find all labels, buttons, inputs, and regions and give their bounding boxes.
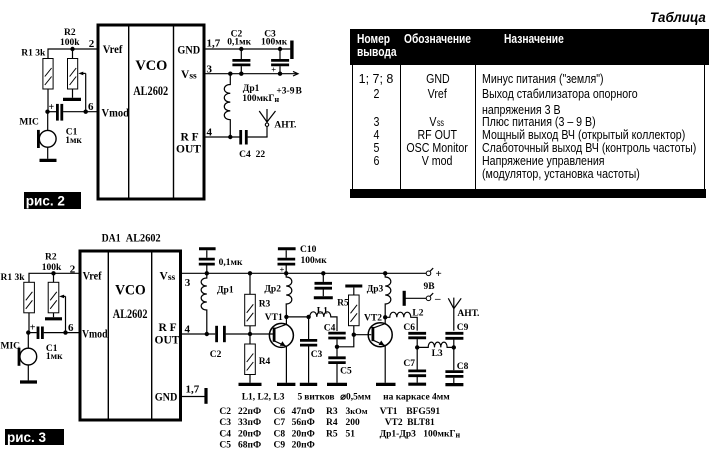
parts list line 5 — [219, 441, 314, 451]
node C3 bottom — [278, 72, 282, 76]
node C2 right / R3 R4 base junction fig3 — [248, 332, 252, 336]
potentiometer R2 100k fig3 — [42, 253, 62, 313]
wire MIC bottom lead fig3 — [27, 365, 29, 380]
node VT1 collector junction fig3 — [284, 315, 288, 319]
wire antenna to C9 fig3 — [453, 309, 455, 331]
node Dr3 top fig3 — [383, 271, 387, 275]
ground C5 fig3 — [327, 383, 347, 386]
wire mic node to C1 and pin 6 — [48, 111, 98, 113]
node decoupling cap top fig3 — [321, 271, 325, 275]
antenna ANT fig3 — [448, 298, 479, 319]
antenna ANT fig2 — [259, 109, 296, 131]
capacitor 0,1mk decoupling fig3 — [199, 249, 243, 273]
figure label ris.2 — [24, 192, 81, 209]
pin 2 Vref label fig3 — [70, 263, 102, 282]
node VT2 collector junction fig3 — [383, 315, 387, 319]
wire R2 top lead fig3 — [53, 273, 55, 282]
wire collector node to L1 fig3 — [286, 316, 308, 318]
wire GND pin 1,7 fig3 — [182, 396, 205, 398]
capacitor C4 22 — [239, 130, 268, 160]
table title — [647, 11, 706, 24]
ground C8 fig3 — [445, 383, 463, 386]
table header bar — [350, 29, 709, 65]
node C3 top — [278, 47, 282, 51]
battery plus terminal 9V — [424, 268, 442, 292]
inductor Dr2 fig3 — [264, 273, 291, 317]
wire Vref to R1/R2 top — [48, 49, 97, 59]
pin 4 RF OUT label fig3 — [155, 322, 191, 347]
wire Vss rail pin 3 to supply — [206, 71, 303, 96]
node 0,1mk / Dr1 top fig3 — [205, 271, 209, 275]
ground R2 bottom — [63, 98, 81, 101]
wire R1 bottom lead — [47, 89, 49, 112]
wire C4 to antenna — [266, 126, 268, 137]
wire RF OUT pin4 to C2 fig3 — [182, 333, 215, 335]
ground C7 fig3 — [408, 383, 426, 386]
capacitor C9 fig3 — [445, 323, 468, 347]
table borders — [352, 65, 353, 189]
node R2 top junction fig3 — [51, 271, 55, 275]
wire R2 top lead — [72, 49, 74, 59]
node mic/C1 junction — [45, 110, 49, 114]
ground MIC fig3 — [20, 380, 37, 383]
transistor VT1 BFG591 — [265, 313, 294, 347]
wire C4/C5 node to R5 bottom fig3 — [337, 326, 354, 347]
wire R2 wiper arm to pin 6 — [78, 72, 85, 112]
op-amp DA1 VCO AL2602 IC body — [80, 233, 181, 421]
capacitor C10 100mk fig3 — [278, 245, 328, 274]
wire base VT1 fig3 — [250, 333, 273, 335]
wire MIC bottom lead — [47, 147, 49, 159]
ground minus terminal fig3 — [403, 291, 406, 306]
wire RF OUT rail pin 4 — [206, 136, 240, 138]
node C4/C5 junction fig3 — [335, 345, 339, 349]
capacitor C4 fig3 — [324, 324, 346, 347]
wire mic node to C1 and pin 6 fig3 — [28, 332, 78, 334]
ground decoupling cap fig3 — [314, 296, 333, 299]
capacitor C2 0,1mk — [227, 29, 251, 73]
node L3 right / C9 C8 junction fig3 — [452, 345, 456, 349]
resistor R1 3k — [21, 48, 53, 89]
parts list line 4 — [219, 429, 460, 439]
microphone MIC — [19, 112, 56, 148]
node L1 left / C3 top fig3 — [306, 315, 310, 319]
ground MIC — [40, 159, 57, 162]
battery minus terminal — [406, 293, 442, 305]
inductor Dr1 fig3 — [201, 273, 234, 334]
node Dr1 bottom fig3 — [205, 332, 209, 336]
resistor R5 fig3 — [337, 288, 359, 326]
ground R2 bottom fig3 — [45, 317, 62, 320]
capacitor C5 fig3 — [328, 347, 352, 383]
wire VT1 collector fig3 — [285, 317, 287, 325]
transistor VT2 BLT81 — [364, 313, 392, 346]
capacitor C1 1mk polarized — [49, 102, 83, 146]
pin 6 Vmod label — [88, 101, 130, 120]
wire Vref to R1/R2 top fig3 — [29, 273, 79, 282]
wire VT2 collector fig3 — [384, 317, 386, 323]
capacitor C1 1mk polarized fig3 — [30, 323, 63, 362]
node R2 top junction — [70, 47, 74, 51]
node Dr1 bottom — [228, 135, 232, 139]
inductor L3 fig3 — [417, 342, 454, 359]
resistor R3 fig3 — [245, 273, 271, 334]
wire R2 bottom lead — [72, 89, 74, 98]
pin 6 Vmod label fig3 — [68, 322, 108, 340]
capacitor C6 fig3 — [403, 323, 426, 347]
table rows — [352, 73, 400, 86]
ground C3 fig3 — [300, 383, 317, 386]
wire R1 bottom lead fig3 — [28, 313, 30, 333]
node mic/C1 junction fig3 — [26, 330, 30, 334]
potentiometer R2 100k — [60, 28, 80, 89]
wire VT2 emitter fig3 — [384, 346, 386, 383]
wire Vss rail fig3 — [182, 272, 426, 274]
capacitor C3 100mk polarized — [261, 29, 289, 74]
node pin6 junction fig3 — [63, 330, 67, 334]
node R5 bottom / VT2 base junction fig3 — [352, 333, 356, 337]
pin 3 Vss label — [181, 63, 213, 81]
wire VT1 emitter fig3 — [285, 346, 287, 382]
capacitor C8 fig3 — [445, 347, 468, 383]
ground GND pin fig3 — [204, 388, 207, 404]
inductor L2 fig3 — [385, 309, 424, 331]
ground GND rail end — [290, 41, 293, 60]
op-amp U1 VCO AL2602 IC body — [98, 25, 204, 199]
inductor Dr3 fig3 — [367, 273, 391, 317]
pin 1,7 GND label fig3 — [155, 384, 200, 404]
microphone MIC fig3 — [1, 333, 37, 366]
inductor L1 fig3 — [309, 307, 337, 331]
pin 1,7 GND label — [177, 38, 220, 57]
ground VT1 emitter fig3 — [277, 383, 295, 386]
pin 3 Vss label fig3 — [160, 270, 191, 289]
parts list line 2 — [219, 406, 440, 417]
ground R5 top fig3 — [345, 285, 362, 288]
node C6/C7/L3 junction fig3 — [415, 345, 419, 349]
resistor R4 fig3 — [245, 334, 271, 383]
node Dr2 top fig3 — [284, 271, 288, 275]
wire R2 wiper arm to pin 6 fig3 — [59, 295, 65, 333]
node C2 bottom — [239, 72, 243, 76]
inductor Dr1 100mkGn — [224, 74, 279, 137]
capacitor decoupling unlabeled fig3 — [315, 273, 333, 296]
node Dr1 top — [228, 72, 232, 76]
capacitor C7 fig3 — [403, 347, 426, 382]
parts list line 1 — [242, 392, 451, 402]
node R3 top fig3 — [248, 271, 252, 275]
wire R2 bottom lead fig3 — [53, 313, 55, 317]
pin 2 Vref label — [89, 38, 123, 56]
wire R5 node to VT2 base fig3 — [354, 334, 371, 336]
ground R4 fig3 — [239, 383, 262, 386]
pin 4 RF OUT label — [176, 126, 213, 155]
wire GND rail pins 1,7 — [206, 48, 291, 50]
ground VT2 emitter fig3 — [376, 383, 396, 386]
node C2 top — [239, 47, 243, 51]
capacitor C2 series fig3 — [210, 326, 250, 360]
capacitor C3 fig3 — [300, 317, 323, 383]
figure label ris.3 — [5, 429, 64, 445]
node pin6 junction — [84, 110, 88, 114]
parts list line 3 — [219, 418, 435, 428]
resistor R1 3k fig3 — [1, 273, 35, 313]
